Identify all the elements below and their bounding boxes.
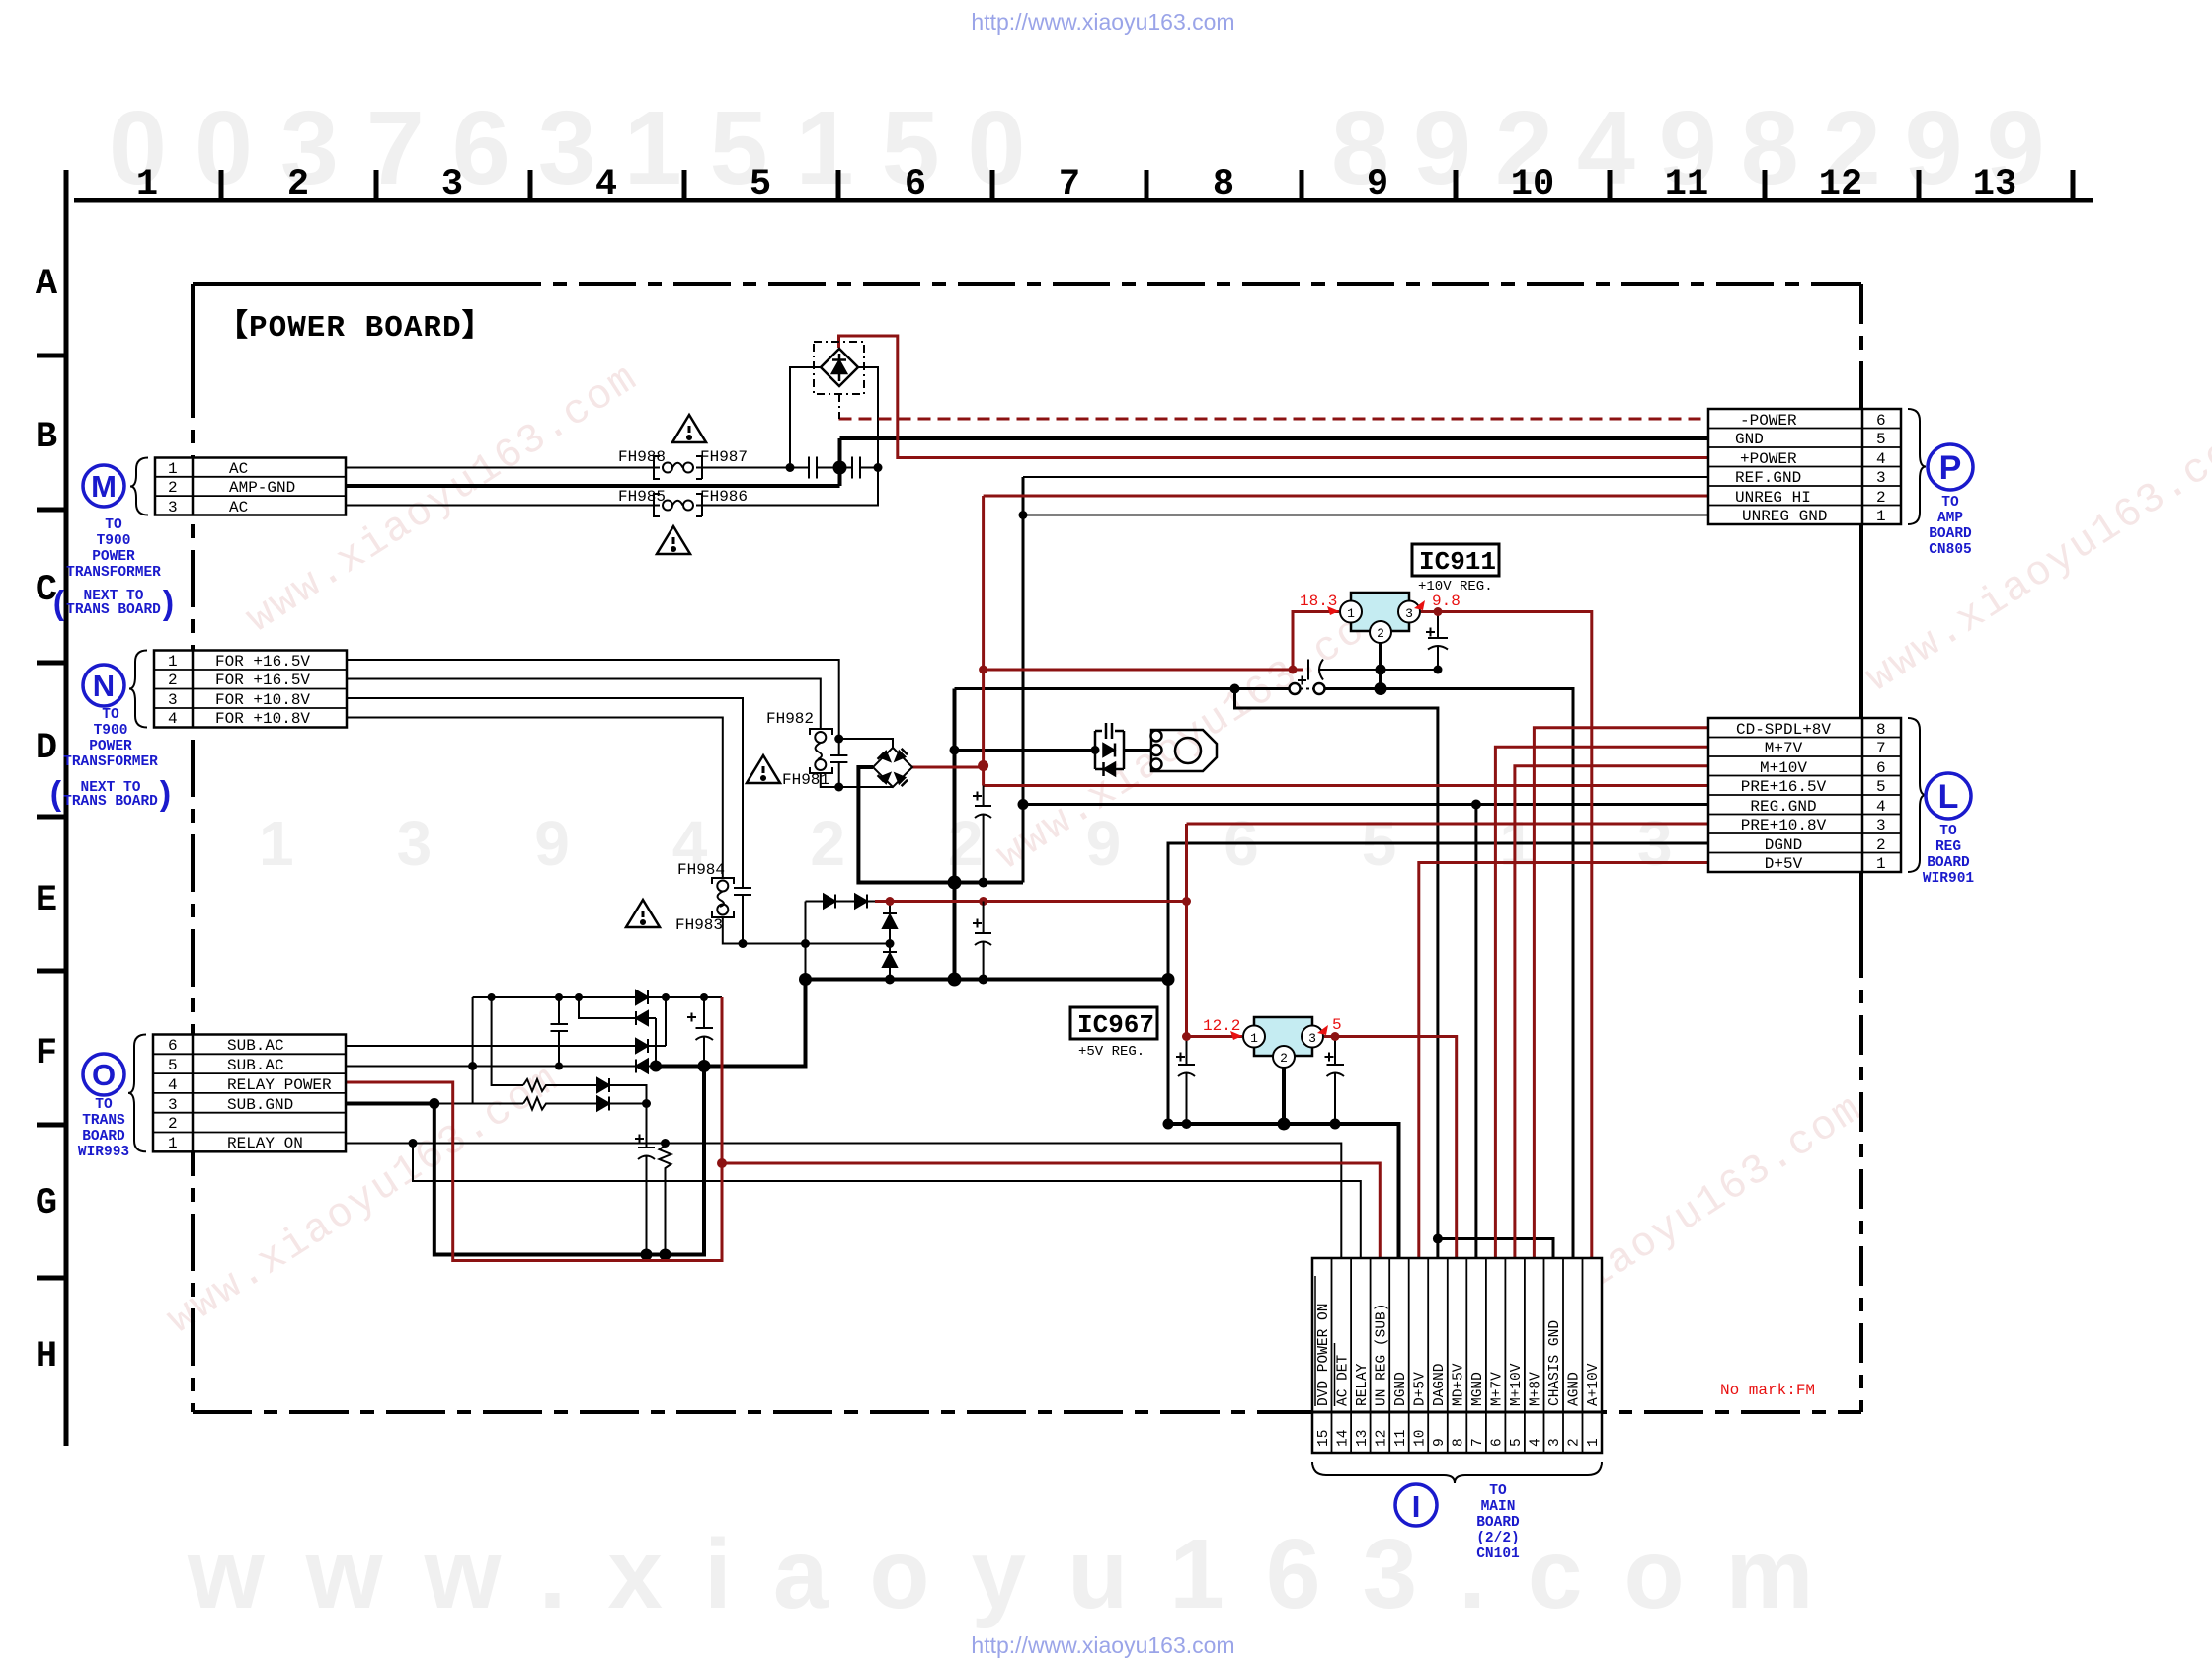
wire SUB.AC row6 diode row3 <box>346 997 666 1046</box>
connector O blue label <box>78 1097 129 1160</box>
svg-text:TRANS: TRANS <box>82 1113 125 1129</box>
warning triangle FH981 <box>747 755 780 783</box>
svg-text:1: 1 <box>168 460 178 478</box>
IC967 pin 2 <box>1273 1046 1295 1068</box>
svg-text:M+10V: M+10V <box>1509 1363 1525 1406</box>
IC911 label box <box>1412 544 1499 576</box>
IC967 pin 1 <box>1243 1026 1265 1048</box>
svg-text:3: 3 <box>168 499 178 516</box>
svg-text:CN805: CN805 <box>1929 542 1972 558</box>
svg-text:www.xiaoyu163.com: www.xiaoyu163.com <box>1857 414 2212 702</box>
switch S901 dashed gap <box>1301 688 1313 690</box>
svg-text:UNREG HI: UNREG HI <box>1735 489 1811 507</box>
svg-text:+POWER: +POWER <box>1740 450 1797 468</box>
connector N blue label <box>63 707 158 810</box>
capacitor C-AC2 <box>852 457 860 479</box>
connector P table <box>1708 409 1901 524</box>
svg-text:2: 2 <box>168 479 178 497</box>
svg-text:1: 1 <box>1586 1438 1602 1447</box>
IC911 pin 1 <box>1340 601 1362 623</box>
wire +10.8V rectified line <box>875 900 1187 903</box>
capacitor C-AC1 <box>809 457 817 479</box>
svg-text:2: 2 <box>168 1115 178 1133</box>
junction dots black <box>786 463 795 472</box>
connector I CN101 table <box>1312 1258 1602 1453</box>
svg-text:2: 2 <box>1876 489 1886 507</box>
ruler ticks <box>221 170 2073 200</box>
svg-text:UNREG GND: UNREG GND <box>1742 508 1827 525</box>
svg-text:D+5V: D+5V <box>1413 1372 1429 1406</box>
svg-text:FOR +10.8V: FOR +10.8V <box>215 691 310 709</box>
connector N circle <box>83 665 124 706</box>
svg-text:FOR +16.5V: FOR +16.5V <box>215 672 310 689</box>
svg-text:9.8: 9.8 <box>1432 593 1461 610</box>
resistor R-relay <box>660 1144 671 1255</box>
svg-text:4: 4 <box>1529 1438 1544 1447</box>
diode D-subC <box>636 1039 648 1053</box>
wire DGND row from L table <box>1168 843 1708 1124</box>
svg-text:1: 1 <box>1876 855 1886 873</box>
svg-text:): ) <box>158 588 178 625</box>
warning triangle below FH985 <box>657 526 690 554</box>
resistor R-sub2 <box>523 1098 549 1110</box>
svg-text:2: 2 <box>287 164 309 205</box>
wire N pin1 to bridge2 top <box>347 660 893 748</box>
wire IC967 ground bus to CN101 pin11 <box>1168 1124 1399 1258</box>
svg-text:PRE+10.8V: PRE+10.8V <box>1741 817 1827 834</box>
svg-text:1: 1 <box>168 1135 178 1152</box>
svg-text:(2/2): (2/2) <box>1476 1531 1520 1546</box>
svg-text:DVD POWER ON: DVD POWER ON <box>1316 1304 1332 1406</box>
board border left (dash-dot) <box>191 284 195 360</box>
svg-text:D+5V: D+5V <box>1765 855 1803 873</box>
svg-text:4: 4 <box>168 1076 178 1094</box>
svg-text:-POWER: -POWER <box>1740 412 1797 430</box>
wire IC911 pin2 ground <box>1379 633 1382 689</box>
wire +POWER from bridge <box>839 336 1709 458</box>
photocoupler body <box>1151 730 1217 771</box>
capacitor C982 <box>830 739 847 787</box>
wire bridge2 output <box>912 766 984 769</box>
svg-text:6: 6 <box>905 164 926 205</box>
svg-text:6: 6 <box>1876 412 1886 430</box>
wire -POWER dashed <box>839 418 1709 421</box>
connector I blue label <box>1476 1483 1520 1562</box>
wire D+5V row to CN101 pin10 <box>1419 863 1708 1259</box>
bridge rectifier D981 diamond <box>873 748 912 787</box>
svg-text:13: 13 <box>1355 1430 1371 1447</box>
wire UN REG SUB to CN101 pin12 <box>722 1163 1380 1258</box>
wire IC967 output to MD+5V <box>1324 1037 1457 1259</box>
svg-text:M+10V: M+10V <box>1760 759 1807 777</box>
svg-text:N: N <box>93 669 115 703</box>
svg-text:2: 2 <box>1377 626 1384 641</box>
wire AC from M pin1 to fuse FH988 <box>346 467 790 469</box>
svg-text:8: 8 <box>1452 1438 1467 1447</box>
svg-text:1: 1 <box>168 653 178 671</box>
svg-text:H: H <box>36 1336 57 1378</box>
electrolytic plus signs <box>635 628 1435 1144</box>
wire MGND drop to CN101 pin7 <box>1474 805 1477 1259</box>
svg-text:I: I <box>1412 1489 1421 1524</box>
svg-text:TRANSFORMER: TRANSFORMER <box>63 754 158 770</box>
wire N pin3 via cap C984 <box>347 698 751 944</box>
svg-text:G: G <box>36 1183 57 1225</box>
svg-text:M+7V: M+7V <box>1490 1372 1506 1406</box>
wire ground bus lower <box>806 978 1169 982</box>
connector N brace <box>129 651 147 728</box>
svg-text:FH985: FH985 <box>618 488 666 506</box>
wire resistor-diode row1 <box>492 997 647 1104</box>
svg-text:7: 7 <box>1059 164 1080 205</box>
wire sub diode row2 <box>579 997 656 1067</box>
svg-text:WIR901: WIR901 <box>1923 871 1975 887</box>
svg-text:FH984: FH984 <box>677 861 725 879</box>
svg-text:6: 6 <box>168 1037 178 1055</box>
svg-text:DAGND: DAGND <box>1432 1363 1448 1406</box>
wire 10.8V rect riser <box>805 902 807 980</box>
wire SUB.GND bottom bus <box>434 1067 704 1255</box>
photocoupler network cap branch <box>1095 723 1217 776</box>
wire photocoupler feed <box>955 749 1096 752</box>
wire ground trunk x966 <box>953 689 957 980</box>
capacitor C911-in plates <box>1307 660 1309 680</box>
wire +10.8V riser <box>1185 824 1188 1037</box>
wire sub rail A to rail B left riser <box>472 997 474 1104</box>
connector L brace <box>1908 718 1926 872</box>
svg-text:5: 5 <box>168 1057 178 1074</box>
wire SUB.AC rail B thin <box>346 1066 656 1068</box>
svg-text:1: 1 <box>1347 606 1355 621</box>
svg-text:2: 2 <box>168 672 178 689</box>
svg-text:9: 9 <box>1367 164 1388 205</box>
wire +16.5V rail riser <box>982 496 985 786</box>
svg-text:3: 3 <box>168 1096 178 1114</box>
svg-text:POWER: POWER <box>89 739 132 754</box>
svg-text:3: 3 <box>1547 1438 1563 1447</box>
svg-text:2: 2 <box>1876 836 1886 854</box>
diode D-sub1 <box>597 1078 609 1092</box>
svg-text:AGND: AGND <box>1567 1372 1583 1406</box>
bridge rectifier D901 inner diode <box>832 354 846 381</box>
svg-text:http://www.xiaoyu163.com: http://www.xiaoyu163.com <box>971 9 1234 35</box>
svg-text:12.2: 12.2 <box>1203 1017 1240 1035</box>
wire RELAY ON row to CN101 pin14 <box>346 1144 1341 1259</box>
wire REG.GND row <box>1023 803 1708 806</box>
svg-text:9: 9 <box>1432 1438 1448 1447</box>
capacitor C967-out stub <box>1327 1037 1345 1125</box>
wire 10.8V diode row black part <box>806 901 876 903</box>
svg-text:BOARD: BOARD <box>82 1129 125 1145</box>
svg-text:CN101: CN101 <box>1476 1546 1520 1562</box>
svg-text:REG.GND: REG.GND <box>1750 798 1816 816</box>
switch S901 contacts <box>1290 683 1301 694</box>
svg-text:5: 5 <box>1876 431 1886 448</box>
svg-text:CHASIS GND: CHASIS GND <box>1547 1320 1563 1406</box>
wire IC967 pin2 ground <box>1282 1057 1286 1124</box>
IC967 pin 3 <box>1302 1026 1323 1048</box>
svg-text:TO: TO <box>1941 495 1959 511</box>
svg-text:11: 11 <box>1393 1430 1409 1447</box>
capacitor C967-out curved plate <box>1327 1073 1345 1077</box>
wire RELAY branch to CN101 pin13 <box>413 1144 1361 1259</box>
capacitor C967-in lower stub <box>1178 1037 1195 1125</box>
svg-text:FOR +16.5V: FOR +16.5V <box>215 653 310 671</box>
regulator IC911 body <box>1351 593 1409 631</box>
bridge rectifier D901 diamond <box>821 349 858 386</box>
svg-text:BOARD: BOARD <box>1927 855 1970 871</box>
wire IC911 pin3 output to A+10V <box>1421 612 1592 1259</box>
svg-text:DGND: DGND <box>1765 836 1802 854</box>
wire REF.GND row <box>1023 476 1708 478</box>
svg-text:3: 3 <box>168 691 178 709</box>
svg-text:REF.GND: REF.GND <box>1735 469 1801 487</box>
connector M blue label <box>66 517 161 618</box>
svg-text:8: 8 <box>1213 164 1234 205</box>
fuse FH988 FH987 symbol <box>654 456 702 479</box>
wire AC from M pin3 to fuse FH985 and bridge <box>346 468 878 506</box>
wire rail B riser thick <box>656 980 806 1067</box>
svg-text:SUB.AC: SUB.AC <box>227 1037 284 1055</box>
svg-text:5: 5 <box>1876 778 1886 796</box>
svg-text:3: 3 <box>1876 817 1886 834</box>
connector M circle <box>83 465 124 507</box>
photocoupler diode forward <box>1103 744 1115 757</box>
svg-text:FH981: FH981 <box>782 771 829 789</box>
connector P brace <box>1908 409 1926 524</box>
diode D-subA <box>636 990 648 1004</box>
wire IC967 input feed <box>1187 1035 1243 1038</box>
svg-text:5: 5 <box>1509 1438 1525 1447</box>
connector N table <box>154 651 347 728</box>
wire ground riser x1036 <box>1022 477 1025 883</box>
svg-text:No mark:FM: No mark:FM <box>1720 1382 1815 1399</box>
svg-text:12: 12 <box>1375 1430 1390 1447</box>
svg-text:A+10V: A+10V <box>1586 1363 1602 1406</box>
IC911 pin 2 <box>1370 621 1391 643</box>
svg-text:REG: REG <box>1935 839 1961 855</box>
diode D3 body <box>883 915 897 929</box>
diode D-subD on rail B <box>636 1060 648 1073</box>
connector L blue label <box>1923 824 1975 887</box>
svg-text:MGND: MGND <box>1470 1372 1486 1406</box>
left frame line <box>64 170 69 1446</box>
svg-text:4: 4 <box>595 164 617 205</box>
capacitor C-sub566 <box>551 997 569 1067</box>
connector N parens <box>46 778 175 816</box>
svg-text:FOR +10.8V: FOR +10.8V <box>215 710 310 728</box>
wire M+7V row to CN101 pin6 <box>1495 747 1708 1258</box>
svg-text:2: 2 <box>1280 1051 1288 1066</box>
svg-text:E: E <box>36 880 57 921</box>
svg-text:3: 3 <box>1876 469 1886 487</box>
svg-text:DGND: DGND <box>1393 1372 1409 1406</box>
svg-text:M: M <box>91 469 117 504</box>
svg-text:15: 15 <box>1316 1430 1332 1447</box>
wire bridge AC right leg <box>858 367 878 468</box>
CN101 overlines for DVD POWER ON and AC DET <box>1315 1276 1335 1406</box>
wire PRE+16.5V row <box>984 784 1708 787</box>
svg-text:FH983: FH983 <box>675 916 723 934</box>
svg-text:TO: TO <box>1939 824 1957 839</box>
svg-text:(: ( <box>49 588 69 625</box>
svg-text:AC: AC <box>229 460 248 478</box>
svg-text:RELAY: RELAY <box>1355 1363 1371 1406</box>
svg-text:CD-SPDL+8V: CD-SPDL+8V <box>1736 721 1831 739</box>
svg-text:18.3: 18.3 <box>1300 593 1337 610</box>
svg-text:D: D <box>36 728 57 769</box>
svg-text:13: 13 <box>1973 164 2016 205</box>
bridge rectifier D901 dash-dot box <box>814 342 864 394</box>
wire UNREG HI <box>984 495 1708 498</box>
warning triangle FH983 <box>626 900 660 927</box>
svg-text:B: B <box>36 417 57 458</box>
diode chain D3 D4 to ground bus <box>883 902 897 980</box>
svg-text:10: 10 <box>1511 164 1554 205</box>
svg-text:www.xiaoyu163.com: www.xiaoyu163.com <box>187 1519 1855 1629</box>
svg-text:FH982: FH982 <box>766 710 814 728</box>
wire IC911 pin1 riser <box>1293 612 1339 671</box>
connector M parens <box>49 588 178 625</box>
svg-text:TO: TO <box>105 517 122 533</box>
svg-text:BOARD: BOARD <box>1929 526 1972 542</box>
svg-text:(: ( <box>46 778 66 816</box>
capacitor C-16.5 filter <box>975 786 991 883</box>
wire UNREG GND row <box>1023 515 1708 516</box>
svg-text:L: L <box>1938 778 1959 816</box>
left row ticks <box>37 356 66 1278</box>
capacitor C-10.8 filter <box>975 902 991 980</box>
svg-text:7: 7 <box>1876 740 1886 757</box>
connector L table <box>1708 718 1901 872</box>
svg-text:F: F <box>36 1033 57 1074</box>
svg-text:12: 12 <box>1819 164 1862 205</box>
capacitor C-elB <box>696 997 714 1067</box>
svg-text:+5V REG.: +5V REG. <box>1078 1044 1145 1060</box>
wire RELAY POWER loop <box>346 997 722 1261</box>
svg-text:14: 14 <box>1336 1430 1352 1447</box>
wire SUB.GND from O table thick <box>346 1102 434 1106</box>
svg-text:1: 1 <box>1876 508 1886 525</box>
svg-text:O: O <box>92 1058 116 1092</box>
wire SUB rail A <box>473 996 722 998</box>
fuse FH982 symbol vertical <box>810 729 832 773</box>
svg-text:UN REG (SUB): UN REG (SUB) <box>1375 1304 1390 1406</box>
capacitor C911-out <box>1428 612 1448 671</box>
wire N pin4 to fuse FH984 and bottom rail <box>347 718 890 944</box>
wire switch line from ground trunk <box>955 689 1574 1259</box>
svg-text:5: 5 <box>750 164 771 205</box>
board border bottom (dash-dot) <box>193 1410 1861 1414</box>
svg-text:TRANS BOARD: TRANS BOARD <box>66 602 161 618</box>
svg-text:SUB.GND: SUB.GND <box>227 1096 293 1114</box>
wire CHASIS GND branch to CN101 pin3 <box>1438 1239 1553 1259</box>
svg-text:http://www.xiaoyu163.com: http://www.xiaoyu163.com <box>971 1632 1234 1658</box>
svg-text:8: 8 <box>1876 721 1886 739</box>
warning triangle above FH988 <box>672 415 706 442</box>
wire AMP-GND thick <box>346 438 1708 486</box>
board border top (dash-dot) <box>193 282 484 286</box>
svg-text:BOARD: BOARD <box>1476 1515 1520 1531</box>
svg-text:10: 10 <box>1413 1430 1429 1447</box>
svg-text:RELAY POWER: RELAY POWER <box>227 1076 332 1094</box>
svg-text:FH986: FH986 <box>700 488 748 506</box>
bridge rectifier D981 diodes <box>880 751 891 761</box>
IC967 label box <box>1070 1007 1157 1039</box>
svg-text:3: 3 <box>1308 1031 1316 1046</box>
diode D-10.8a <box>824 895 835 909</box>
capacitor C967-in curved plate <box>1178 1073 1195 1077</box>
svg-text:RELAY ON: RELAY ON <box>227 1135 303 1152</box>
svg-text:PRE+16.5V: PRE+16.5V <box>1741 778 1827 796</box>
svg-text:4: 4 <box>1876 450 1886 468</box>
svg-text:MAIN: MAIN <box>1481 1499 1516 1515</box>
svg-text:1: 1 <box>1250 1031 1258 1046</box>
wire SUB.GND row with resistor-diode <box>434 1103 647 1105</box>
capacitor C-sub relay <box>638 1104 655 1255</box>
board border right (dash-dot) <box>1859 284 1863 401</box>
svg-text:FH988: FH988 <box>618 448 666 466</box>
photocoupler diode reverse <box>1104 762 1116 776</box>
wire DAGND run to CN101 pin9 <box>1235 689 1438 1259</box>
svg-text:GND: GND <box>1735 431 1764 448</box>
svg-text:TRANSFORMER: TRANSFORMER <box>66 565 161 581</box>
svg-text:): ) <box>155 778 175 816</box>
wire PRE+10.8V row <box>1187 823 1709 826</box>
diode D-sub2 <box>597 1097 609 1111</box>
svg-text:POWER: POWER <box>92 549 135 565</box>
svg-text:M+7V: M+7V <box>1765 740 1803 757</box>
wire AC caps segment to bridge <box>790 467 878 469</box>
svg-text:【POWER BOARD】: 【POWER BOARD】 <box>217 309 494 346</box>
connector I circle <box>1395 1484 1437 1526</box>
connector I brace <box>1312 1462 1602 1483</box>
svg-text:TO: TO <box>95 1097 113 1113</box>
connector O table <box>153 1035 346 1152</box>
svg-text:1: 1 <box>136 164 158 205</box>
svg-text:AMP: AMP <box>1937 511 1963 526</box>
connector O brace <box>128 1035 146 1152</box>
svg-text:11: 11 <box>1665 164 1708 205</box>
svg-text:TRANS BOARD: TRANS BOARD <box>63 794 158 810</box>
svg-text:AC: AC <box>229 499 248 516</box>
junction dots red <box>979 666 987 674</box>
wire IC911 input feed <box>984 669 1303 672</box>
diode D-10.8b <box>855 895 867 909</box>
svg-text:SUB.AC: SUB.AC <box>227 1057 284 1074</box>
svg-text:3: 3 <box>441 164 463 205</box>
resistor R-sub1 <box>523 1079 549 1091</box>
connector L circle <box>1926 773 1971 819</box>
svg-text:T900: T900 <box>97 533 131 549</box>
svg-text:AMP-GND: AMP-GND <box>229 479 295 497</box>
wire bridge AC left leg <box>790 367 821 468</box>
diode D4 body <box>883 954 897 968</box>
wire CD-SPDL+8V row to CN101 pin4 <box>1534 728 1708 1258</box>
wire M+10V row to CN101 pin5 <box>1515 766 1708 1258</box>
svg-text:4: 4 <box>1876 798 1886 816</box>
svg-text:6: 6 <box>1876 759 1886 777</box>
svg-text:7: 7 <box>1470 1438 1486 1447</box>
svg-text:IC967: IC967 <box>1077 1010 1154 1040</box>
svg-text:P: P <box>1939 449 1962 487</box>
diode D-subB <box>636 1011 648 1025</box>
connector P blue label <box>1929 495 1972 558</box>
svg-text:2: 2 <box>1567 1438 1583 1447</box>
svg-text:5: 5 <box>1332 1016 1342 1034</box>
bridge rectifier D901 stub to -POWER <box>838 394 840 419</box>
pin divider segments over border <box>193 409 1862 1412</box>
